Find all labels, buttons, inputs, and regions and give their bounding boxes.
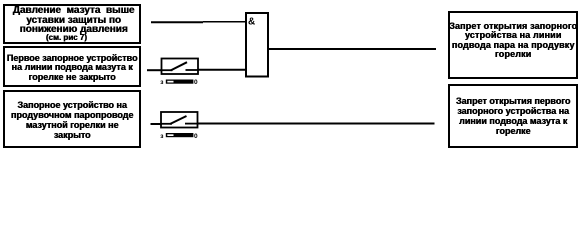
wire W2: box B2 to time-delay contact K1 bbox=[147, 69, 162, 71]
svg-text:з: з bbox=[160, 79, 164, 86]
output box B5: Запрет открытия первого запорного устройства (мазут) bbox=[448, 84, 578, 148]
svg-text:0: 0 bbox=[194, 79, 198, 86]
input box B2: Первое запорное устройство не закрыто bbox=[3, 46, 141, 87]
svg-text:0: 0 bbox=[194, 133, 198, 140]
contact K2 (delayed contact, 3...0 s) bbox=[161, 112, 198, 128]
input box B3: Запорное устройство на продувочном паропроводе bbox=[3, 90, 141, 148]
timer bar T2 under contact K2 (delay indicator) bbox=[166, 133, 194, 137]
wire W1: box B1 to AND gate input 1 bbox=[151, 21, 246, 24]
wire W3: contact K1 to AND gate input 2 bbox=[198, 69, 246, 71]
wire W5: box B3 to time-delay contact K2 bbox=[151, 123, 163, 125]
AND gate U1 bbox=[246, 13, 268, 77]
svg-text:з: з bbox=[160, 133, 164, 140]
output box B4: Запрет открытия запорного устройства (пар) bbox=[448, 11, 578, 79]
timer bar T1 under contact K1 (delay indicator) bbox=[166, 80, 194, 84]
svg-text:&: & bbox=[248, 16, 255, 27]
input box B1: Давление мазута выше уставки защиты bbox=[3, 4, 141, 44]
contact K1 (delayed contact, 3...0 s) bbox=[162, 59, 199, 75]
wire W4: AND gate output to box B4 bbox=[268, 48, 436, 50]
wire W6: contact K2 to box B5 bbox=[198, 123, 435, 125]
